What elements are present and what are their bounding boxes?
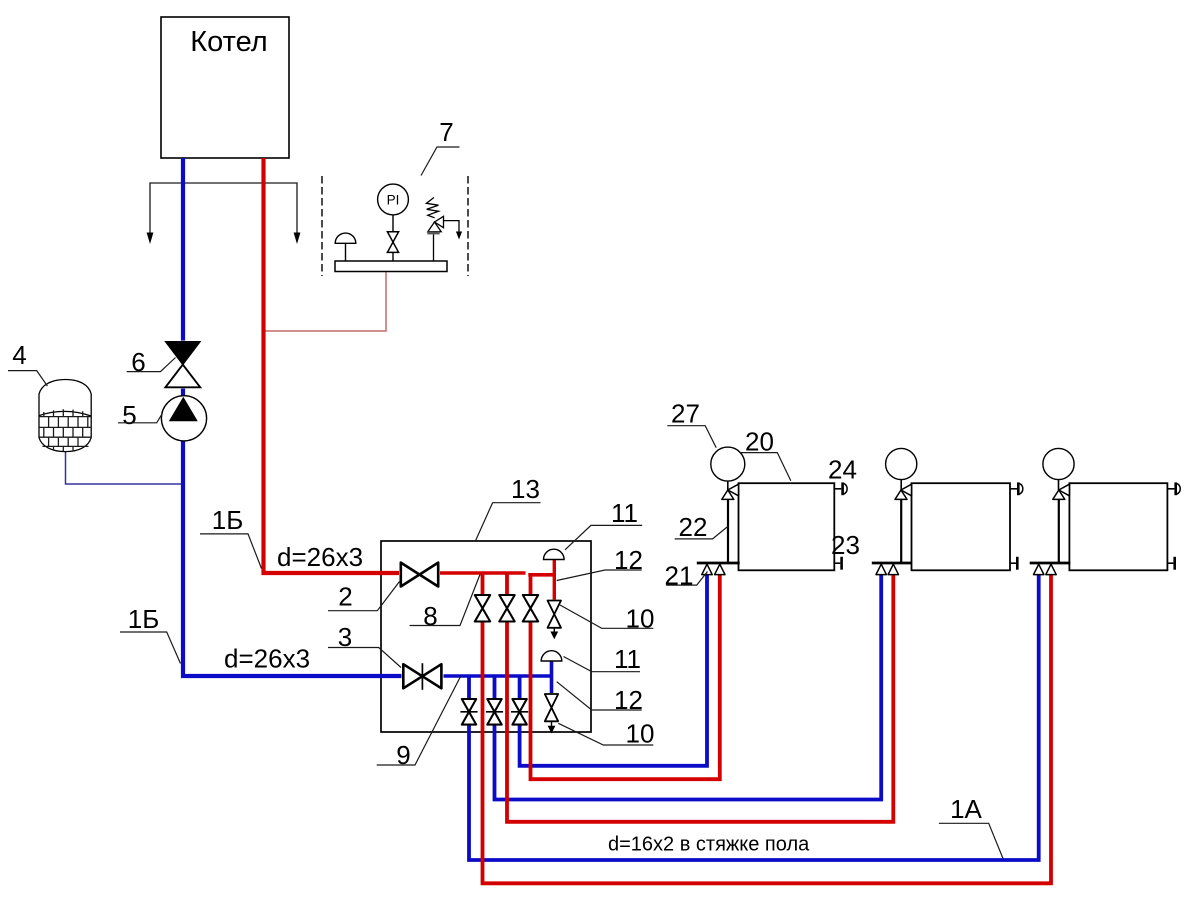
blue manifold pipe after valve 3 xyxy=(441,674,551,678)
svg-text:6: 6 xyxy=(131,347,145,377)
svg-text:24: 24 xyxy=(828,455,857,485)
svg-text:1Б: 1Б xyxy=(128,604,160,634)
svg-text:11: 11 xyxy=(611,498,638,528)
svg-text:8: 8 xyxy=(423,601,437,631)
loop 2 blue pipe to radiator 2 xyxy=(495,575,882,800)
radiator 1 body xyxy=(739,483,835,570)
boiler box xyxy=(161,17,289,158)
svg-text:1Б: 1Б xyxy=(212,505,244,535)
radiator 3 connection riser xyxy=(1058,499,1060,563)
gauge shutoff valve xyxy=(387,232,398,261)
drain valve 12 on red manifold end xyxy=(547,600,562,629)
radiator 2 connection riser xyxy=(900,499,902,563)
red manifold pipe right segment xyxy=(528,573,554,577)
air vent dome on bar xyxy=(335,233,356,261)
manifold small valve on red drop 3 xyxy=(522,594,539,622)
radiator 3 body xyxy=(1069,483,1167,570)
manifold small valve on blue drop 2 xyxy=(486,698,503,725)
label 12 upper xyxy=(557,545,643,581)
radiator 1 thermostatic valve xyxy=(722,484,739,499)
radiator 3 thermostatic head xyxy=(1043,448,1074,490)
expansion tank 4 xyxy=(39,380,181,485)
svg-text:d=26x3: d=26x3 xyxy=(277,542,363,572)
manifold right blue riser xyxy=(550,661,554,695)
safety valve with spring xyxy=(426,198,462,262)
radiator 3 air vent xyxy=(1167,482,1180,495)
radiator 1 connection riser 22 xyxy=(727,499,729,563)
air vent dome 11 on red manifold end xyxy=(544,549,565,559)
label 1Б lower xyxy=(120,604,181,664)
loop 2 red pipe to radiator 2 xyxy=(507,573,893,822)
manifold small valve on blue drop 3 xyxy=(511,698,528,725)
drain outlet arrow 10 (red side) xyxy=(550,628,558,639)
group 7 manifold bar xyxy=(335,261,447,272)
circulation pump 5 on blue main xyxy=(161,396,206,441)
radiator 2 air vent xyxy=(1010,482,1023,495)
security group 7: dashed boundary left xyxy=(321,176,323,276)
radiator 3 thermostatic valve xyxy=(1053,484,1070,499)
svg-text:27: 27 xyxy=(671,399,700,429)
pressure gauge PI xyxy=(378,184,409,232)
svg-text:10: 10 xyxy=(626,719,655,749)
label 5 xyxy=(118,400,163,430)
security group 7: dashed boundary right xyxy=(467,176,469,276)
radiator 1 air vent 24 xyxy=(834,482,847,495)
label 10 lower xyxy=(558,719,654,749)
label 11 lower xyxy=(564,644,642,674)
svg-text:7: 7 xyxy=(439,117,453,147)
radiator 2 thermostatic head xyxy=(886,448,917,490)
blue return main pipe from boiler to manifold xyxy=(183,158,403,676)
radiator 1 thermostatic head 27 xyxy=(711,447,745,490)
svg-text:2: 2 xyxy=(338,582,352,612)
svg-text:23: 23 xyxy=(831,530,860,560)
label 13 xyxy=(475,474,540,541)
svg-text:11: 11 xyxy=(614,644,641,674)
loop 3 red pipe to radiator 3 xyxy=(483,573,1052,883)
label 22 xyxy=(675,512,729,542)
loop 1 blue pipe to radiator 1 xyxy=(520,575,707,766)
svg-text:21: 21 xyxy=(665,561,694,591)
label 4 xyxy=(8,340,47,386)
radiator 3 drain plug xyxy=(1167,557,1174,570)
svg-text:Котел: Котел xyxy=(190,26,267,58)
red supply main pipe from boiler to manifold xyxy=(264,158,401,573)
loop 3 blue pipe to radiator 3 xyxy=(469,575,1039,861)
label 1Б upper xyxy=(200,505,262,569)
svg-text:PI: PI xyxy=(387,193,400,208)
label 10 upper xyxy=(560,604,654,634)
radiator 2 bottom connection unit xyxy=(872,563,912,575)
label 27 xyxy=(667,399,716,448)
label 6 xyxy=(127,347,176,377)
balancing valve 3 on blue manifold inlet xyxy=(402,663,444,691)
arrowhead right xyxy=(294,233,301,245)
svg-text:1А: 1А xyxy=(950,794,982,824)
svg-text:d=26x3: d=26x3 xyxy=(224,644,310,674)
label 7 xyxy=(421,117,460,176)
radiator 2 drain plug xyxy=(1010,557,1017,570)
radiator 1 drain plug 23 xyxy=(834,557,841,570)
manifold cabinet box 13 xyxy=(381,541,591,732)
svg-text:22: 22 xyxy=(679,512,708,542)
svg-text:4: 4 xyxy=(12,340,26,370)
loop 1 red pipe to radiator 1 xyxy=(531,574,720,780)
svg-text:13: 13 xyxy=(511,474,540,504)
manifold small valve on blue drop 1 xyxy=(460,698,477,725)
radiator 2 body xyxy=(912,483,1011,570)
manifold small valve on red drop 2 xyxy=(499,594,516,622)
thin red connector from group 7 to supply pipe xyxy=(264,272,386,331)
radiator 3 bottom connection unit xyxy=(1030,563,1071,575)
drain valve 12 on blue manifold end xyxy=(544,693,559,722)
svg-text:10: 10 xyxy=(626,604,655,634)
label 11 upper xyxy=(565,498,642,550)
label 20 xyxy=(741,427,791,481)
label 3 xyxy=(328,622,401,668)
label 12 lower xyxy=(557,682,643,715)
label 1A xyxy=(939,794,1003,859)
radiator 1 bottom connection unit 21 xyxy=(697,563,740,575)
balancing valve 2 on red manifold inlet xyxy=(399,561,440,588)
svg-text:d=16x2 в стяжке пола: d=16x2 в стяжке пола xyxy=(608,834,810,856)
air vent dome 11 on blue manifold end xyxy=(541,651,562,661)
label 9 xyxy=(377,677,461,771)
arrowhead left xyxy=(147,233,154,245)
manifold small valve on red drop 1 xyxy=(474,594,491,622)
label 21 xyxy=(665,561,708,591)
label 8 xyxy=(410,575,480,632)
manifold right red riser xyxy=(553,559,556,600)
label 2 xyxy=(328,582,400,612)
svg-text:5: 5 xyxy=(122,400,136,430)
under-boiler bracket with arrows xyxy=(150,183,297,236)
drain outlet arrow 10 (blue side) xyxy=(548,721,556,733)
radiator 2 thermostatic valve xyxy=(895,484,912,499)
shutoff valve 6 on blue main xyxy=(164,341,203,389)
red manifold pipe after valve 2 xyxy=(438,571,526,575)
